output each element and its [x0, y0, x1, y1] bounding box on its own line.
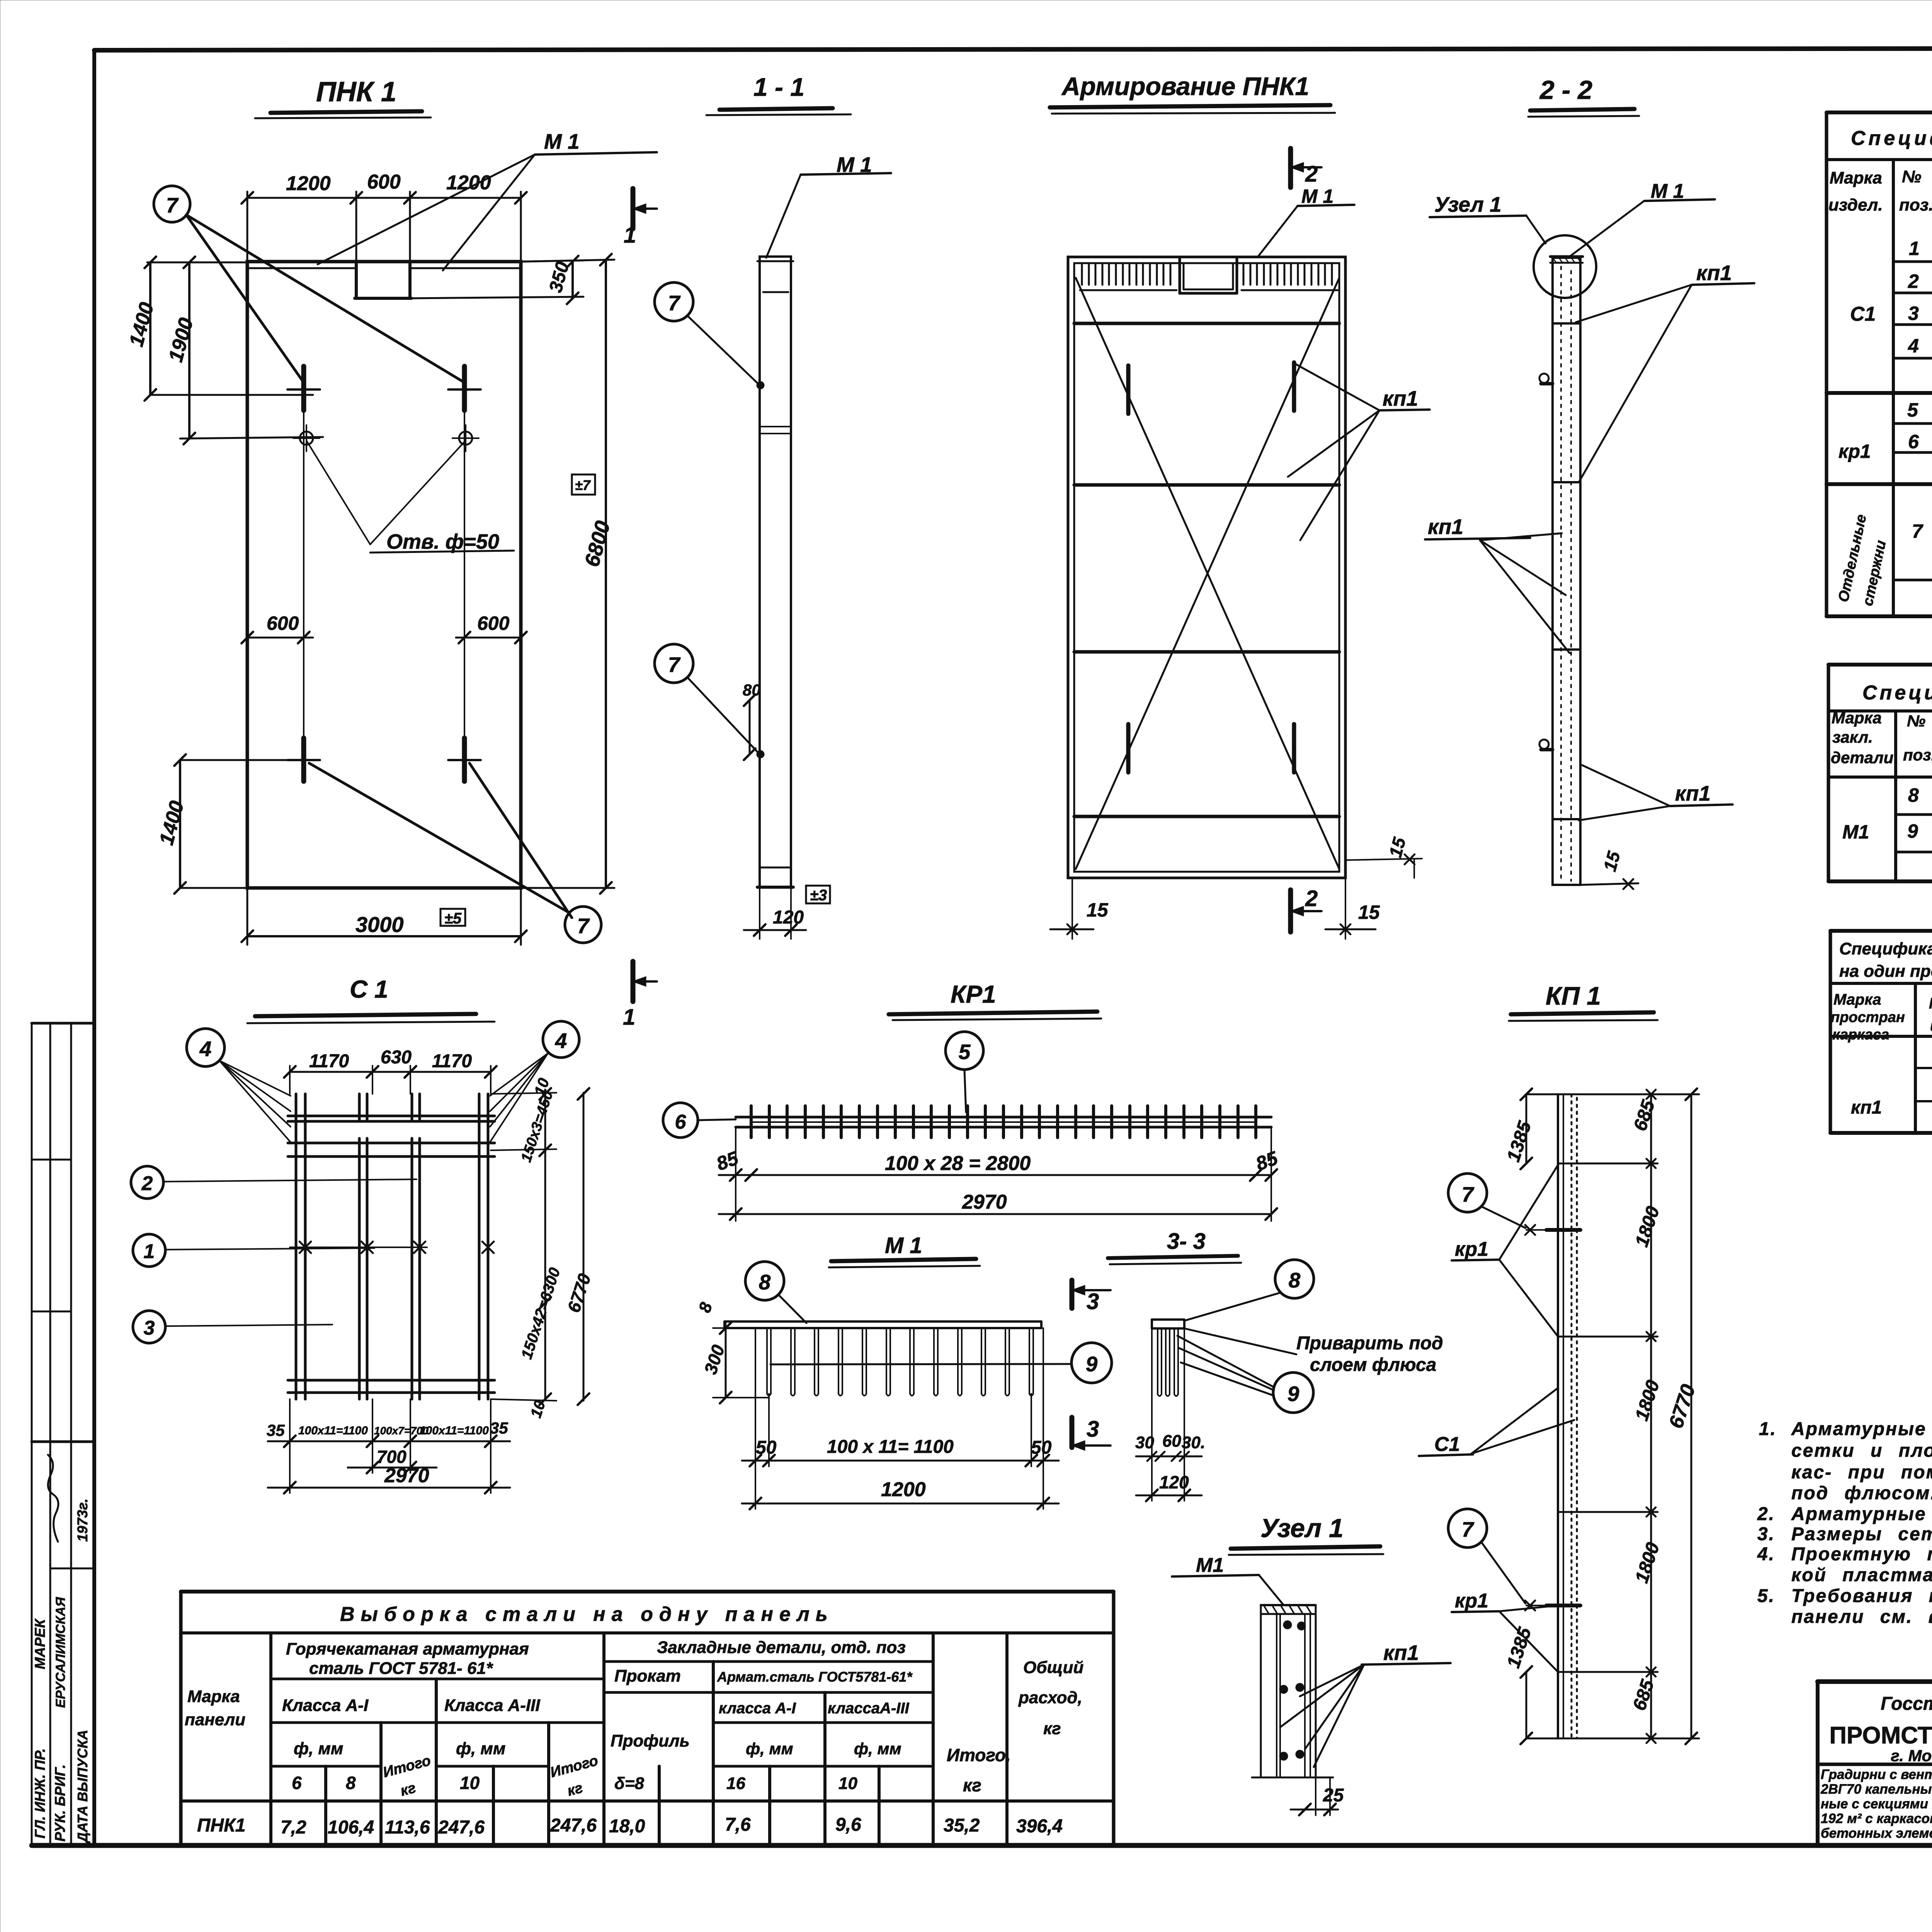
svg-text:10: 10 — [460, 1773, 480, 1793]
svg-text:Марка: Марка — [187, 1687, 240, 1706]
svg-text:Марка: Марка — [1929, 995, 1932, 1012]
svg-text:247,6: 247,6 — [550, 1815, 597, 1836]
svg-text:100х11=1100: 100х11=1100 — [298, 1424, 368, 1437]
svg-text:ф, мм: ф, мм — [854, 1740, 901, 1758]
svg-text:6: 6 — [292, 1773, 302, 1793]
svg-text:8: 8 — [1289, 1268, 1301, 1292]
svg-text:8: 8 — [346, 1773, 356, 1793]
svg-text:Спецификация арматурных издели: Спецификация арматурных изделий — [1839, 939, 1932, 958]
svg-text:3.: 3. — [1757, 1524, 1775, 1544]
svg-text:класса А-I: класса А-I — [719, 1700, 796, 1717]
svg-text:каркаса: каркаса — [1832, 1027, 1889, 1043]
svg-text:7: 7 — [668, 291, 681, 315]
svg-text:630: 630 — [381, 1047, 412, 1068]
svg-text:г. Москва 1973г.: г. Москва 1973г. — [1891, 1747, 1932, 1765]
svg-text:1: 1 — [1909, 238, 1920, 259]
svg-text:кп1: кп1 — [1383, 386, 1418, 410]
svg-text:7: 7 — [1912, 520, 1923, 542]
svg-text:кп1: кп1 — [1696, 261, 1732, 285]
svg-text:Класса А-III: Класса А-III — [444, 1696, 540, 1715]
svg-text:9: 9 — [1086, 1352, 1098, 1376]
svg-text:2 - 2: 2 - 2 — [1539, 75, 1592, 105]
svg-text:закл.: закл. — [1832, 728, 1873, 746]
svg-text:4: 4 — [555, 1029, 567, 1053]
svg-text:ф, мм: ф, мм — [746, 1740, 793, 1758]
svg-text:поз.: поз. — [1899, 196, 1932, 214]
svg-text:1170: 1170 — [432, 1051, 472, 1071]
svg-text:3: 3 — [1087, 1417, 1099, 1442]
svg-text:2970: 2970 — [962, 1191, 1007, 1213]
svg-text:600: 600 — [477, 612, 510, 634]
svg-text:9: 9 — [1287, 1382, 1299, 1406]
svg-text:кр1: кр1 — [1455, 1238, 1488, 1260]
svg-text:КП 1: КП 1 — [1546, 981, 1601, 1010]
svg-text:Градирни с вентиляторами: Градирни с вентиляторами — [1821, 1767, 1932, 1782]
svg-text:кп1: кп1 — [1428, 515, 1463, 539]
svg-text:Отв. ф=50: Отв. ф=50 — [386, 530, 499, 553]
svg-text:бетонных элементов: бетонных элементов — [1821, 1826, 1932, 1841]
svg-text:35: 35 — [267, 1421, 285, 1439]
svg-text:8: 8 — [1908, 784, 1919, 806]
svg-text:2: 2 — [141, 1172, 153, 1195]
svg-text:ПНК 1: ПНК 1 — [316, 77, 396, 107]
svg-text:С1: С1 — [1850, 303, 1876, 325]
svg-text:5: 5 — [1907, 399, 1918, 421]
svg-text:120: 120 — [773, 907, 804, 928]
svg-text:6: 6 — [675, 1111, 687, 1133]
svg-text:396,4: 396,4 — [1016, 1816, 1063, 1837]
svg-text:30.: 30. — [1182, 1433, 1205, 1452]
svg-text:детали: детали — [1831, 748, 1893, 767]
svg-text:8: 8 — [759, 1270, 771, 1294]
svg-text:113,6: 113,6 — [385, 1817, 430, 1838]
svg-text:на один пространственный карка: на один пространственный каркас — [1839, 962, 1932, 981]
svg-text:Размеры сетки и каркасов д: Размеры сетки и каркасов даны по осям ст… — [1791, 1524, 1932, 1544]
svg-text:КР1: КР1 — [951, 980, 996, 1008]
svg-text:106,4: 106,4 — [328, 1817, 374, 1838]
svg-text:1200: 1200 — [286, 172, 331, 195]
svg-text:издел.: издел. — [1930, 1017, 1932, 1034]
svg-text:100 х 11= 1100: 100 х 11= 1100 — [827, 1437, 954, 1457]
svg-text:Госстрой СССР: Госстрой СССР — [1881, 1694, 1932, 1714]
svg-text:5: 5 — [959, 1040, 971, 1064]
svg-text:№: № — [1902, 167, 1921, 186]
svg-text:ДАТА ВЫПУСКА: ДАТА ВЫПУСКА — [75, 1730, 90, 1844]
svg-text:Марка: Марка — [1830, 168, 1882, 187]
svg-text:классаА-III: классаА-III — [828, 1700, 910, 1717]
svg-text:3- 3: 3- 3 — [1167, 1229, 1206, 1254]
svg-text:7: 7 — [1462, 1517, 1475, 1541]
svg-text:±5: ±5 — [444, 910, 462, 927]
svg-text:2: 2 — [1908, 270, 1919, 292]
svg-text:кп1: кп1 — [1675, 781, 1711, 805]
svg-text:Выборка стали на одну пане: Выборка стали на одну панель — [340, 1603, 834, 1626]
svg-text:Узел 1: Узел 1 — [1434, 192, 1502, 216]
svg-text:100х11=1100: 100х11=1100 — [419, 1424, 489, 1437]
svg-text:Требования к бетону и стали: Требования к бетону и стали и указания п… — [1791, 1586, 1932, 1606]
svg-text:120: 120 — [1159, 1472, 1189, 1492]
svg-text:сталь ГОСТ 5781- 61*: сталь ГОСТ 5781- 61* — [309, 1659, 493, 1678]
svg-text:30: 30 — [1135, 1433, 1154, 1452]
svg-text:кг: кг — [1043, 1719, 1061, 1738]
svg-text:15: 15 — [1358, 901, 1380, 923]
svg-text:С 1: С 1 — [350, 975, 388, 1003]
svg-text:1973г.: 1973г. — [75, 1498, 90, 1542]
svg-text:сетки и плоские каркасы- точе: сетки и плоские каркасы- точечной сварко… — [1791, 1440, 1932, 1461]
svg-text:7,6: 7,6 — [725, 1815, 751, 1835]
svg-text:М1: М1 — [1842, 821, 1869, 843]
svg-text:Спецификация стали на одну: Спецификация стали на одну закладную дет… — [1862, 682, 1932, 704]
svg-text:25: 25 — [1323, 1785, 1344, 1806]
svg-text:под флюсом.: под флюсом. — [1791, 1483, 1932, 1503]
svg-text:1: 1 — [623, 1005, 635, 1030]
svg-text:700: 700 — [377, 1447, 406, 1467]
svg-text:2: 2 — [1305, 886, 1318, 911]
svg-text:7: 7 — [577, 914, 590, 938]
svg-text:кп1: кп1 — [1383, 1641, 1419, 1665]
svg-text:Узел 1: Узел 1 — [1260, 1514, 1344, 1543]
svg-text:1 - 1: 1 - 1 — [753, 73, 804, 101]
svg-text:35: 35 — [490, 1419, 508, 1437]
svg-text:Класса А-I: Класса А-I — [282, 1696, 369, 1715]
svg-text:С1: С1 — [1434, 1433, 1460, 1456]
svg-text:М 1: М 1 — [544, 129, 580, 153]
svg-text:7: 7 — [1462, 1182, 1475, 1206]
svg-text:7: 7 — [166, 193, 179, 217]
svg-text:3: 3 — [144, 1317, 155, 1339]
svg-text:простран: простран — [1831, 1009, 1905, 1026]
svg-text:ЕРУСАЛИМСКАЯ: ЕРУСАЛИМСКАЯ — [53, 1597, 68, 1708]
svg-text:100 х 28 = 2800: 100 х 28 = 2800 — [885, 1152, 1031, 1175]
svg-text:Проектную толщину защитных: Проектную толщину защитных слоев бетона … — [1791, 1544, 1932, 1565]
svg-text:Общий: Общий — [1023, 1658, 1083, 1677]
svg-text:600: 600 — [367, 171, 401, 193]
svg-text:Приварить под: Приварить под — [1296, 1333, 1443, 1354]
svg-text:Арматурные изделия изготовля: Арматурные изделия изготовлять в соответ… — [1791, 1419, 1932, 1439]
svg-text:1200: 1200 — [881, 1478, 926, 1501]
svg-text:Армирование ПНК1: Армирование ПНК1 — [1061, 72, 1309, 100]
svg-text:поз.: поз. — [1903, 746, 1932, 764]
svg-text:№: № — [1907, 712, 1925, 730]
svg-text:35,2: 35,2 — [944, 1815, 980, 1836]
svg-text:2970: 2970 — [384, 1464, 429, 1487]
svg-text:4: 4 — [1908, 335, 1919, 357]
svg-text:2ВГ70 капельные и брызгаль-: 2ВГ70 капельные и брызгаль- — [1820, 1782, 1932, 1797]
svg-text:Спецификация и выборка стали н: Спецификация и выборка стали на одно арм… — [1851, 127, 1932, 150]
svg-text:кп1: кп1 — [1851, 1097, 1882, 1118]
svg-text:М 1: М 1 — [885, 1233, 922, 1258]
svg-text:Прокат: Прокат — [614, 1667, 681, 1685]
svg-text:кой пластмассовых или бет: кой пластмассовых или бетонных фиксаторо… — [1791, 1565, 1932, 1585]
svg-text:Итого,: Итого, — [947, 1745, 1011, 1765]
svg-text:кг: кг — [963, 1775, 981, 1795]
svg-text:6: 6 — [1908, 431, 1919, 452]
svg-text:7: 7 — [668, 653, 681, 677]
svg-text:кр1: кр1 — [1455, 1590, 1488, 1612]
svg-text:δ=8: δ=8 — [614, 1774, 645, 1793]
svg-text:панели: панели — [185, 1710, 245, 1729]
svg-text:ф, мм: ф, мм — [456, 1739, 505, 1758]
svg-text:кас- при помощи сварочных к: кас- при помощи сварочных клещей, заклад… — [1791, 1462, 1932, 1483]
svg-text:Закладные детали, отд. поз: Закладные детали, отд. поз — [657, 1638, 906, 1657]
svg-text:50: 50 — [756, 1437, 777, 1458]
svg-text:Профиль: Профиль — [611, 1731, 690, 1750]
svg-text:панели см. в пояснительной: панели см. в пояснительной записке. — [1791, 1607, 1932, 1627]
svg-text:Армат.сталь ГОСТ5781-61*: Армат.сталь ГОСТ5781-61* — [717, 1669, 913, 1685]
svg-text:ные с секциями площадью: ные с секциями площадью — [1821, 1796, 1932, 1811]
svg-text:192 м² с каркасом из железо-: 192 м² с каркасом из железо- — [1821, 1811, 1932, 1826]
svg-text:2: 2 — [1305, 162, 1318, 187]
svg-text:16: 16 — [726, 1774, 745, 1793]
svg-text:18,0: 18,0 — [609, 1816, 645, 1837]
svg-text:±7: ±7 — [575, 477, 591, 493]
svg-text:4: 4 — [199, 1037, 212, 1061]
svg-text:М1: М1 — [1196, 1554, 1224, 1577]
svg-text:Марка: Марка — [1832, 709, 1882, 727]
svg-text:600: 600 — [267, 612, 299, 634]
svg-text:1: 1 — [624, 223, 636, 248]
svg-text:ПНК1: ПНК1 — [197, 1815, 245, 1836]
svg-text:ГЛ. ИНЖ. ПР.: ГЛ. ИНЖ. ПР. — [32, 1748, 48, 1838]
svg-text:10: 10 — [838, 1774, 857, 1793]
svg-text:1200: 1200 — [446, 172, 491, 194]
svg-text:9: 9 — [1907, 820, 1918, 842]
svg-text:7,2: 7,2 — [281, 1817, 306, 1838]
svg-text:слоем флюса: слоем флюса — [1310, 1355, 1436, 1375]
svg-text:5.: 5. — [1757, 1586, 1775, 1606]
svg-text:2.: 2. — [1757, 1504, 1775, 1524]
svg-text:РУК. БРИГ.: РУК. БРИГ. — [52, 1764, 68, 1842]
svg-text:расход,: расход, — [1018, 1688, 1082, 1707]
svg-text:Марка: Марка — [1833, 991, 1881, 1008]
svg-text:МАРЕК: МАРЕК — [32, 1618, 48, 1669]
svg-text:ф, мм: ф, мм — [294, 1739, 343, 1758]
svg-text:1: 1 — [144, 1240, 155, 1263]
svg-text:издел.: издел. — [1828, 196, 1883, 214]
svg-text:кр1: кр1 — [1838, 440, 1871, 462]
svg-text:247,6: 247,6 — [438, 1817, 485, 1838]
svg-text:50: 50 — [1031, 1437, 1052, 1458]
svg-text:Арматурные изделия должны о: Арматурные изделия должны отвечать требо… — [1791, 1504, 1932, 1524]
svg-text:15: 15 — [1087, 899, 1109, 921]
svg-text:Горячекатаная арматурная: Горячекатаная арматурная — [286, 1639, 529, 1658]
svg-text:80: 80 — [743, 681, 761, 699]
svg-text:4.: 4. — [1757, 1544, 1775, 1565]
svg-text:М 1: М 1 — [1301, 185, 1333, 207]
svg-text:3: 3 — [1908, 303, 1919, 324]
svg-text:60: 60 — [1162, 1432, 1181, 1451]
svg-text:3: 3 — [1087, 1289, 1099, 1314]
svg-text:1.: 1. — [1759, 1419, 1777, 1439]
svg-text:3000: 3000 — [355, 912, 404, 937]
svg-text:ПРОМСТРОЙПРОЕКТ: ПРОМСТРОЙПРОЕКТ — [1829, 1722, 1932, 1749]
svg-text:1170: 1170 — [309, 1051, 349, 1071]
svg-text:±3: ±3 — [810, 887, 827, 904]
svg-text:9,6: 9,6 — [835, 1815, 861, 1835]
